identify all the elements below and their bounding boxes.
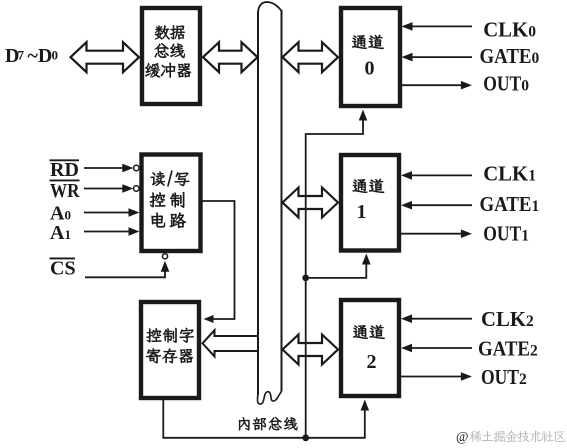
channel 1 box 通道1	[341, 155, 399, 251]
svg-text:WR: WR	[50, 180, 80, 202]
GATE2 wire	[411, 347, 472, 349]
double arrow buffer to bus	[203, 42, 258, 72]
svg-text:GATE0: GATE0	[480, 44, 540, 68]
internal bus left line	[257, 11, 259, 395]
CLK0 wire	[412, 25, 473, 27]
CS wire	[85, 270, 165, 277]
A1 wire	[84, 231, 129, 233]
GATE0 wire	[412, 56, 473, 58]
double arrow D7~D0 to buffer	[71, 42, 140, 72]
read/write control box 读/写控制电路	[142, 155, 201, 252]
svg-text:GATE2: GATE2	[478, 337, 538, 361]
double arrow bus to channel 2	[283, 335, 339, 365]
control wire R/W to control word register	[201, 201, 235, 319]
bus bottom break squiggle	[258, 392, 282, 405]
svg-text:RD: RD	[50, 159, 79, 181]
svg-text:CS: CS	[50, 258, 76, 280]
channel 0 box 通道0	[341, 8, 400, 106]
control net: branch to channel 0	[306, 121, 363, 278]
internal bus top arc	[258, 2, 282, 12]
label 内部总线	[239, 417, 250, 430]
svg-text:1: 1	[357, 201, 367, 223]
OUT0 wire	[402, 84, 462, 86]
CLK2 wire	[411, 318, 472, 320]
control net: branch to channel 1	[306, 265, 367, 438]
control word register box 控制字寄存器	[141, 302, 199, 398]
svg-text:D7~D0: D7~D0	[5, 45, 58, 67]
OUT2 wire	[401, 376, 461, 378]
svg-text:@: @	[456, 429, 468, 444]
hollow arrow bus to control word register	[203, 330, 259, 356]
CLK1 wire	[411, 174, 472, 176]
WR wire	[84, 188, 123, 190]
double arrow bus to channel 1	[283, 188, 339, 218]
svg-text:CLK1: CLK1	[483, 162, 536, 186]
internal bus right line	[281, 10, 283, 392]
OUT1 wire	[401, 233, 461, 235]
RD wire	[84, 167, 123, 169]
svg-text:GATE1: GATE1	[480, 192, 540, 216]
control net: register to channel 2	[163, 399, 364, 438]
data bus buffer box 数据总线缓冲器	[142, 8, 200, 104]
GATE1 wire	[411, 204, 472, 206]
junction dot bottom line	[302, 434, 309, 441]
double arrow bus to channel 0	[283, 42, 339, 72]
channel 2 box 通道2	[341, 300, 399, 396]
svg-text:2: 2	[367, 351, 377, 373]
A0 wire	[84, 212, 129, 214]
svg-text:0: 0	[365, 58, 375, 80]
junction dot channel 1 branch	[302, 275, 309, 282]
